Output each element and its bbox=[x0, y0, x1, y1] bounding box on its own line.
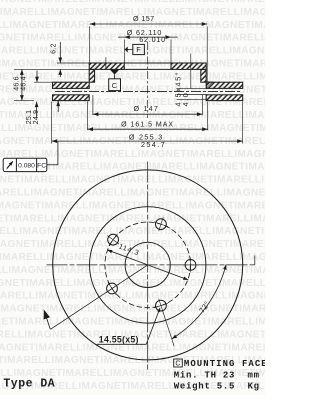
dimension Ø161.5 MAX bbox=[87, 102, 89, 131]
svg-text:MAGNETIMARELLIMAGNETIMARELLIMA: MAGNETIMARELLIMAGNETIMARELLIMAGNETIMAREL… bbox=[0, 317, 265, 328]
section: friction ring left bottom plate (hatched) bbox=[53, 95, 90, 101]
section: hat wall right (hatched) bbox=[201, 69, 206, 82]
section: friction ring left top plate (hatched) bbox=[53, 82, 90, 88]
radial extension through lower bolt hole bbox=[163, 311, 174, 346]
svg-text:MAGNETIMARELLIMAGNETIMARELLIMA: MAGNETIMARELLIMAGNETIMARELLIMAGNETIMAREL… bbox=[0, 291, 265, 302]
note mounting face C bbox=[174, 359, 183, 367]
svg-text:MAGNETIMARELLIMAGNETIMARELLIMA: MAGNETIMARELLIMAGNETIMARELLIMAGNETIMAREL… bbox=[0, 175, 265, 186]
bolt hole at 72 deg bbox=[156, 300, 167, 311]
bolt hole at 146.5 deg bbox=[107, 283, 118, 294]
dimension 72 degree arc bbox=[172, 264, 226, 339]
svg-text:24.9: 24.9 bbox=[33, 110, 40, 124]
svg-text:Min. TH 23 mm: Min. TH 23 mm bbox=[174, 370, 260, 380]
datum C mounting face symbol bbox=[110, 70, 120, 75]
svg-text:62.010: 62.010 bbox=[139, 35, 166, 44]
front view hat circle bbox=[90, 207, 206, 323]
svg-text:Ø 161.5 MAX: Ø 161.5 MAX bbox=[121, 121, 174, 128]
dimension Ø157 top bbox=[90, 23, 208, 25]
svg-text:MAGNETIMARELLIMAGNETIMARELLIMA: MAGNETIMARELLIMAGNETIMARELLIMAGNETIMAREL… bbox=[0, 213, 265, 224]
section: vent gap centre line bbox=[55, 91, 241, 93]
section: friction ring right bottom plate (hatched) bbox=[206, 95, 243, 101]
section: friction ring right top plate (hatched) bbox=[206, 82, 243, 88]
bolt hole at 216 deg bbox=[108, 234, 119, 245]
section: bore visible back edges bbox=[124, 62, 171, 64]
radial centre line through lower-left hole bbox=[51, 265, 148, 329]
front view outer circle bbox=[53, 170, 243, 360]
dimension 46.6/46.4 total height bbox=[14, 100, 34, 102]
svg-text:MAGNETIMARELLIMAGNETIMARELLIMA: MAGNETIMARELLIMAGNETIMARELLIMAGNETIMAREL… bbox=[0, 278, 265, 289]
runout tolerance frame 0.080 FC bbox=[3, 158, 47, 171]
dimension Ø147 bbox=[92, 95, 94, 115]
svg-text:MAGNETIMARELLIMAGNETIMARELLIMA: MAGNETIMARELLIMAGNETIMARELLIMAGNETIMAREL… bbox=[0, 0, 265, 5]
tick at right end of centre line bbox=[254, 256, 256, 265]
svg-text:Ø 157: Ø 157 bbox=[133, 14, 155, 23]
runout leader bbox=[47, 164, 58, 166]
horizontal centre line bbox=[47, 264, 255, 266]
section: vertical axis centre line bbox=[147, 42, 149, 118]
svg-text:0.080: 0.080 bbox=[18, 163, 35, 170]
section: hat wall left (hatched) bbox=[89, 69, 94, 82]
short edge line on flange left bbox=[105, 57, 107, 69]
svg-text:46.4: 46.4 bbox=[21, 76, 28, 90]
svg-text:C: C bbox=[175, 361, 180, 368]
dimension Ø62.110/62.010 bore bbox=[118, 36, 178, 38]
bolt hole at 288 deg bbox=[156, 219, 167, 230]
svg-text:MAGNETIMARELLIMAGNETIMARELLIMA: MAGNETIMARELLIMAGNETIMARELLIMAGNETIMAREL… bbox=[0, 226, 265, 237]
bolt hole at 0 deg bbox=[185, 260, 196, 271]
svg-text:FC: FC bbox=[37, 163, 46, 170]
svg-text:F: F bbox=[136, 45, 141, 54]
svg-text:Weight 5.5 Kg: Weight 5.5 Kg bbox=[174, 382, 260, 392]
datum F symbol bbox=[133, 44, 145, 54]
svg-text:254.7: 254.7 bbox=[141, 140, 166, 149]
section: hat flange left (hatched) bbox=[89, 63, 124, 69]
dimension 114.3 bolt circle diameter bbox=[107, 250, 188, 280]
svg-text:6.2: 6.2 bbox=[48, 43, 57, 54]
section: hat flange right (hatched) bbox=[171, 63, 206, 69]
front view bolt circle (dashed) bbox=[105, 222, 191, 308]
dimension 6.2 flange thickness bbox=[57, 62, 89, 64]
svg-text:4.0: 4.0 bbox=[181, 92, 190, 107]
svg-text:Type DA: Type DA bbox=[3, 377, 55, 390]
svg-text:46.6: 46.6 bbox=[13, 76, 20, 90]
chamfer dimension 4.5x45deg and 4.0 bbox=[190, 54, 192, 89]
svg-text:14.55(x5): 14.55(x5) bbox=[99, 335, 139, 345]
dimension 25.1/24.9 ring thickness bbox=[34, 81, 53, 83]
runout arrow symbol bbox=[7, 161, 13, 168]
svg-text:MOUNTING FACE: MOUNTING FACE bbox=[184, 359, 265, 369]
svg-text:C: C bbox=[112, 81, 118, 90]
svg-text:MAGNETIMARELLIMAGNETIMARELLIMA: MAGNETIMARELLIMAGNETIMARELLIMAGNETIMAREL… bbox=[0, 59, 265, 70]
chamfer hatch at ring inner edge bbox=[206, 82, 212, 88]
svg-text:Ø 147: Ø 147 bbox=[134, 104, 160, 113]
front view centre bore circle bbox=[125, 242, 170, 287]
vertical centre line bbox=[147, 162, 149, 372]
svg-text:MAGNETIMARELLIMAGNETIMARELLIMA: MAGNETIMARELLIMAGNETIMARELLIMAGNETIMAREL… bbox=[0, 71, 265, 82]
leader arrow at outer edge lower-left bbox=[46, 315, 51, 329]
svg-text:MAGNETIMARELLIMAGNETIMARELLIMA: MAGNETIMARELLIMAGNETIMARELLIMAGNETIMAREL… bbox=[0, 188, 265, 199]
dimension Ø255.3 / 254.7 outer diameter bbox=[51, 102, 53, 144]
